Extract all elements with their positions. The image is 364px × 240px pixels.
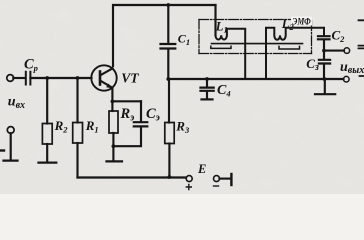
svg-text:E: E — [197, 162, 206, 176]
svg-text:ЭМФ: ЭМФ — [292, 18, 311, 28]
svg-text:VT: VT — [121, 71, 139, 86]
